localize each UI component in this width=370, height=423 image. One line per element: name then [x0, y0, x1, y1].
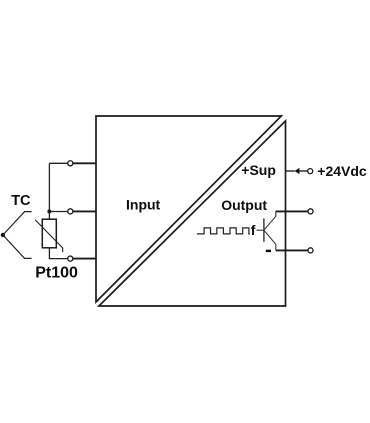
thermocouple TC junction dot [1, 233, 5, 237]
converter box lower-right triangle (Output section) [99, 121, 286, 306]
terminal 2 stub wire (middle input) [72, 210, 96, 212]
output terminal A circle [308, 209, 313, 214]
junction dot [47, 210, 51, 214]
output terminal B circle [308, 248, 313, 253]
square wave frequency symbol [197, 228, 250, 234]
resistor Pt100 thermistor diagonal [35, 220, 63, 252]
svg-text:+Sup: +Sup [241, 162, 276, 178]
arrowhead into +Sup [295, 168, 300, 174]
wire arrow to +24Vdc terminal [299, 170, 308, 172]
wire Pt100 bottom to terminal3 [49, 248, 68, 259]
svg-text:Pt100: Pt100 [35, 265, 78, 282]
terminal 1 circle (top input) [68, 161, 73, 166]
+24Vdc terminal circle [308, 169, 313, 174]
wire junction down to Pt100 top [48, 212, 50, 220]
transistor Q1 collector [264, 211, 276, 230]
wire collector to output terminal A [276, 210, 308, 212]
svg-text:f: f [251, 222, 256, 238]
svg-text:TC: TC [11, 193, 31, 209]
svg-text:+24Vdc: +24Vdc [317, 163, 367, 179]
label minus [266, 250, 271, 252]
transistor Q1 base lead [256, 229, 264, 231]
wire terminal1 to vertical bus [49, 162, 68, 164]
svg-text:Input: Input [126, 196, 161, 212]
svg-text:Output: Output [221, 197, 267, 213]
wire junction to terminal2 [49, 211, 68, 213]
wire +Sup from box edge [286, 170, 295, 172]
terminal 2 circle (middle input) [68, 209, 73, 214]
transistor Q1 base bar [263, 218, 265, 241]
terminal 3 stub wire (bottom input) [72, 258, 96, 260]
wire vertical bus (terminal1 down to junction) [48, 163, 50, 211]
converter box upper-left triangle (Input section) [96, 116, 281, 302]
terminal 3 circle (bottom input) [68, 256, 73, 261]
thermocouple TC upper lead [3, 212, 32, 235]
terminal 1 stub wire (top input) [72, 162, 96, 164]
resistor Pt100 body [42, 219, 56, 248]
transistor Q1 emitter [264, 230, 276, 250]
wire emitter to output terminal B [276, 249, 308, 251]
thermocouple TC lower lead [3, 235, 32, 258]
